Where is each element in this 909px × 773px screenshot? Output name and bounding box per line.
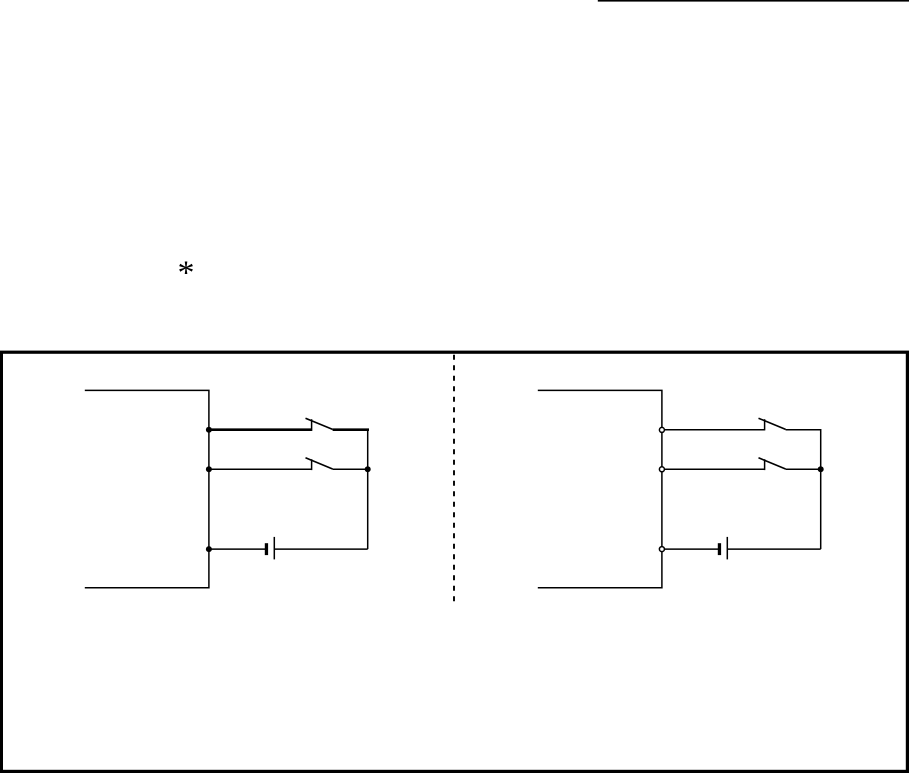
wire L right bus vertical [367,429,369,549]
junction L (row2 / bus) [365,466,371,472]
wire R row2 left segment [662,468,765,470]
wire R right bus vertical [820,429,822,549]
svg-text:*: * [178,255,195,292]
battery R positive plate [726,537,728,560]
switch L2 post [311,459,313,470]
terminal L1 (filled) [206,427,212,433]
figure border [1,352,907,771]
divider dashed line [453,355,455,602]
switch L1 blade [306,418,333,429]
wire L row2 right segment [333,468,368,470]
switch R2 post [764,459,766,470]
header rule [598,0,909,2]
battery R negative plate [718,543,721,555]
terminal L2 (filled) [206,466,212,472]
terminal R1 (open) [659,427,664,432]
terminal R3 (open) [659,547,664,552]
wire R battery row right segment [727,548,820,550]
switch R1 blade [759,418,786,429]
battery L positive plate [273,537,275,560]
wire R battery row left segment [662,548,718,550]
wire L row2 left segment [209,468,312,470]
wire R row1 right segment [786,429,821,431]
PLC module outline (right) [538,390,662,587]
terminal L3 (filled) [206,546,212,552]
switch L1 post [311,419,313,431]
wire R row2 right segment [786,468,821,470]
wire L row1 thick right segment [333,428,369,431]
wire L battery row right segment [274,548,367,550]
wire L battery row left segment [209,548,265,550]
wire R row1 left segment [662,429,765,431]
switch R1 post [764,419,766,430]
junction R (row2 / bus) [818,466,824,472]
switch R2 blade [759,458,786,469]
switch L2 blade [306,458,333,469]
wire L row1 thick left segment [209,428,312,431]
PLC module outline (left) [85,390,209,587]
terminal R2 (open) [659,467,664,472]
battery L negative plate [265,543,268,555]
